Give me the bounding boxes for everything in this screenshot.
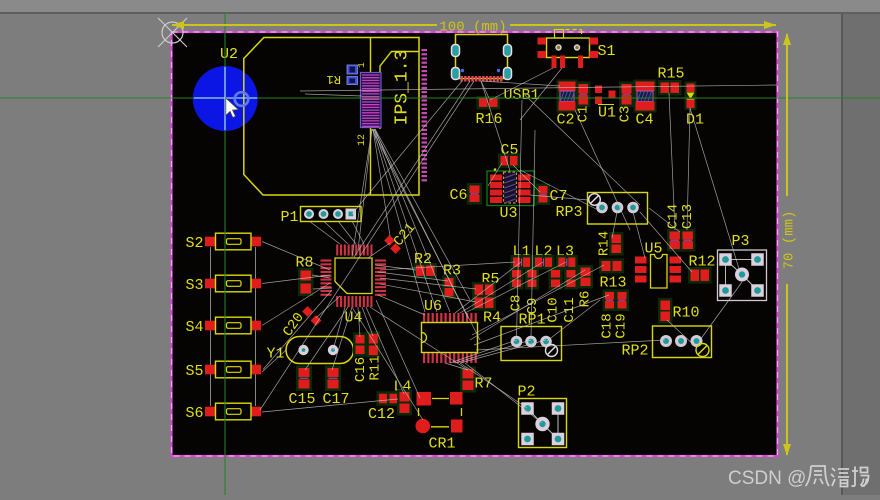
svg-text:R10: R10 [673, 305, 700, 322]
svg-text:S2: S2 [186, 235, 204, 252]
svg-text:C13: C13 [680, 204, 696, 229]
svg-text:100 (mm): 100 (mm) [439, 20, 506, 36]
svg-text:C2: C2 [557, 112, 575, 129]
svg-text:C12: C12 [368, 406, 395, 423]
svg-text:C15: C15 [289, 391, 316, 408]
svg-text:C10: C10 [546, 297, 562, 322]
svg-text:C6: C6 [450, 187, 468, 204]
svg-text:RP2: RP2 [622, 343, 649, 360]
svg-text:R4: R4 [483, 310, 501, 327]
svg-text:S5: S5 [186, 363, 204, 380]
svg-text:R7: R7 [475, 376, 493, 393]
svg-text:C8: C8 [509, 295, 525, 312]
svg-text:R16: R16 [476, 111, 503, 128]
svg-text:C3: C3 [618, 106, 634, 123]
svg-text:U4: U4 [345, 310, 363, 327]
svg-text:S1: S1 [598, 43, 616, 60]
svg-text:R14: R14 [597, 231, 613, 256]
svg-text:1: 1 [357, 62, 367, 67]
svg-text:D1: D1 [686, 112, 704, 129]
svg-text:R13: R13 [600, 275, 627, 292]
svg-text:C19: C19 [614, 313, 630, 338]
svg-text:C7: C7 [550, 188, 568, 205]
svg-text:USB1: USB1 [504, 87, 540, 104]
svg-text:P1: P1 [281, 209, 299, 226]
svg-text:U3: U3 [500, 205, 518, 222]
svg-text:R6: R6 [578, 291, 594, 308]
svg-text:CR1: CR1 [429, 436, 456, 453]
svg-text:C4: C4 [636, 112, 654, 129]
svg-text:S6: S6 [186, 405, 204, 422]
svg-text:12: 12 [357, 134, 368, 146]
svg-text:70 (mm): 70 (mm) [782, 211, 798, 270]
svg-text:IPS_1.3: IPS_1.3 [393, 50, 413, 126]
svg-text:S3: S3 [186, 277, 204, 294]
svg-text:R1: R1 [327, 72, 341, 86]
svg-text:P3: P3 [732, 233, 750, 250]
svg-text:C17: C17 [323, 391, 350, 408]
svg-text:R11: R11 [368, 355, 384, 380]
svg-text:U2: U2 [220, 46, 238, 63]
svg-text:RP3: RP3 [556, 204, 583, 221]
svg-text:CSDN @: CSDN @ [728, 468, 806, 489]
svg-text:U1: U1 [598, 105, 616, 122]
svg-text:S4: S4 [186, 319, 204, 336]
svg-text:C1: C1 [576, 106, 592, 123]
